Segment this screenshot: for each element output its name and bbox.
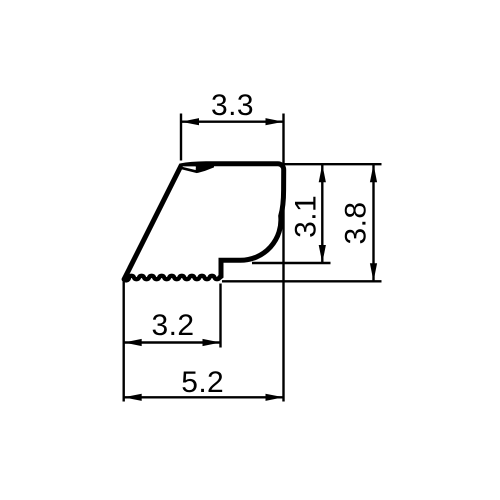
svg-text:5.2: 5.2 bbox=[181, 366, 224, 399]
svg-text:3.2: 3.2 bbox=[152, 309, 195, 342]
svg-text:3.8: 3.8 bbox=[340, 202, 373, 245]
svg-text:3.3: 3.3 bbox=[211, 89, 254, 122]
svg-text:3.1: 3.1 bbox=[290, 195, 323, 238]
